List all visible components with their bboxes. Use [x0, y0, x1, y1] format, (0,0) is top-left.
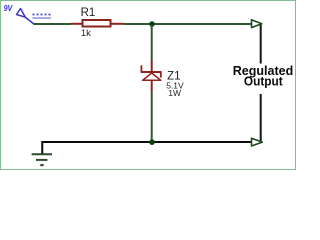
output arrow top: [252, 20, 262, 28]
zener Z1 top lead: [151, 60, 153, 72]
wire top left: [34, 23, 71, 25]
wire bottom: [42, 141, 251, 143]
terminal lead wire: [25, 17, 35, 25]
wire zener lower: [151, 91, 153, 141]
border frame: [1, 1, 296, 170]
output arrow bottom: [252, 138, 263, 146]
zener Z1 cathode bar: [141, 65, 162, 77]
svg-text:1W: 1W: [168, 88, 181, 98]
zener Z1 anode triangle: [143, 73, 161, 80]
junction top: [149, 21, 155, 27]
svg-text:1k: 1k: [81, 28, 91, 39]
wire ground drop: [41, 141, 43, 154]
resistor R1 body: [83, 20, 111, 27]
wire output vertical upper: [260, 24, 262, 64]
junction bottom: [149, 139, 155, 145]
wire top right: [124, 23, 251, 25]
net name underline: [32, 17, 51, 19]
label Regulated Output: [233, 63, 294, 89]
svg-text:9V: 9V: [4, 3, 14, 13]
svg-text:Output: Output: [244, 73, 283, 88]
input terminal triangle: [17, 9, 26, 18]
svg-text:R1: R1: [81, 7, 96, 19]
wire zener upper: [151, 25, 153, 61]
resistor R1 left lead: [71, 23, 83, 25]
zener Z1 bottom lead: [151, 81, 153, 92]
resistor R1 right lead: [112, 23, 125, 25]
wire output vertical lower: [260, 94, 262, 142]
net name placeholder dashes: [32, 14, 50, 16]
ground: [32, 154, 52, 165]
